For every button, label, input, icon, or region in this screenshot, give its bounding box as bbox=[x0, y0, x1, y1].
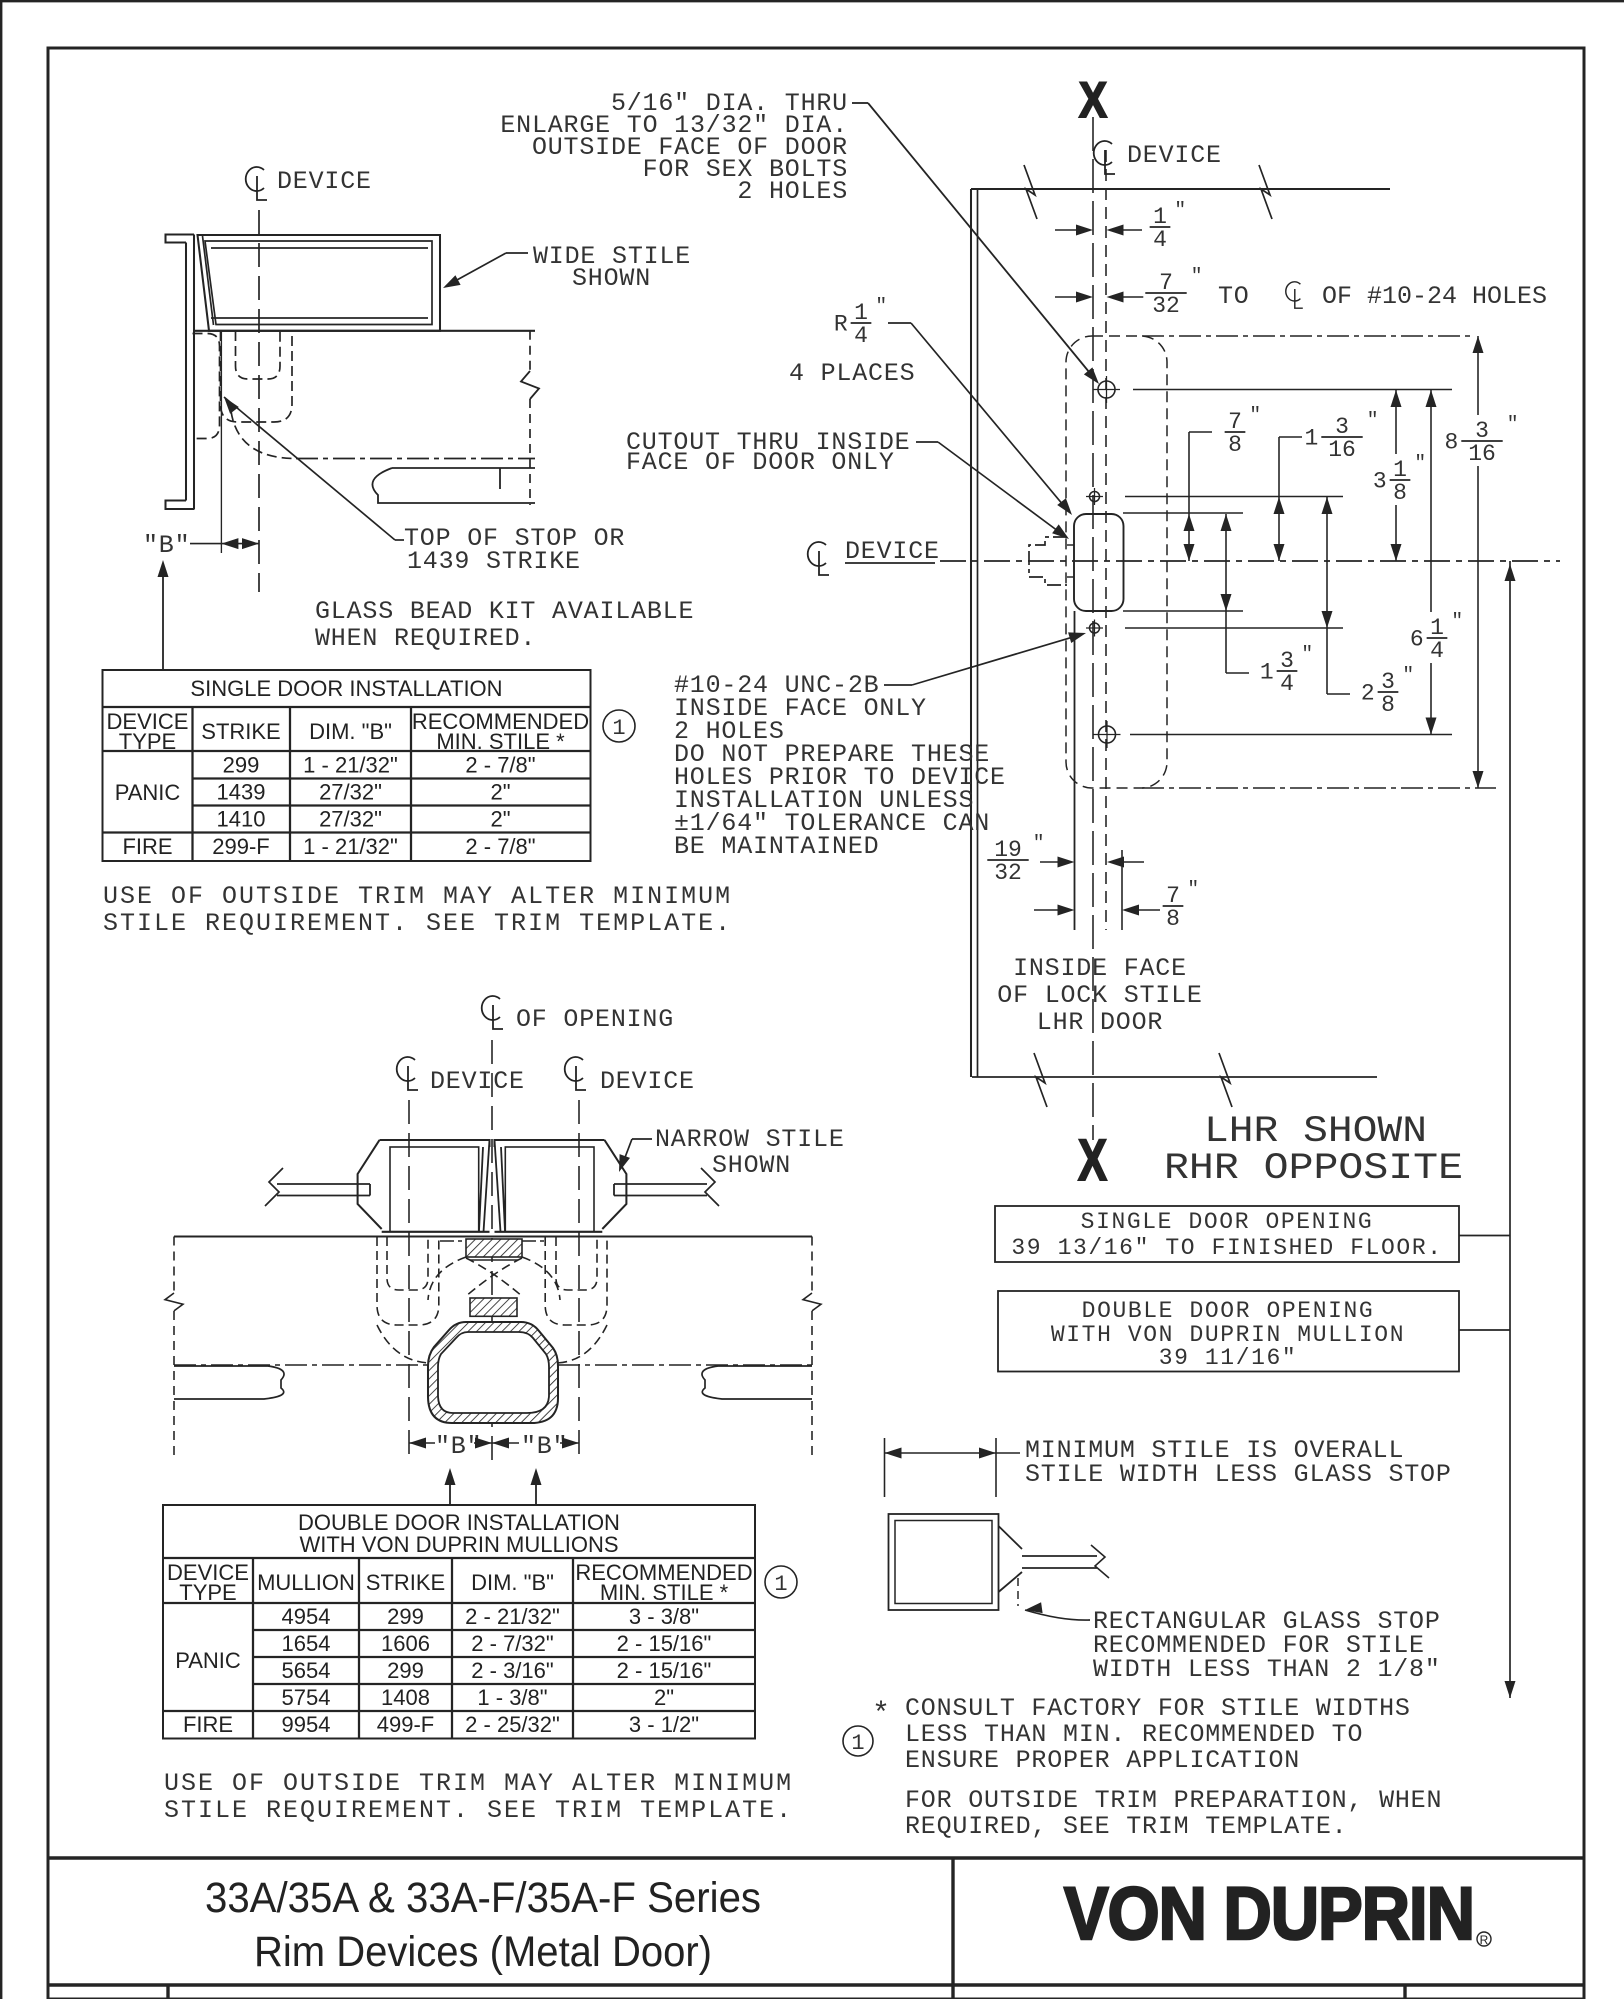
svg-text:8: 8 bbox=[1381, 692, 1395, 718]
svg-text:″: ″ bbox=[1301, 643, 1313, 665]
svg-text:DEVICE: DEVICE bbox=[430, 1067, 525, 1096]
svg-text:R: R bbox=[834, 312, 848, 338]
svg-text:STRIKE: STRIKE bbox=[201, 719, 280, 744]
svg-text:299: 299 bbox=[223, 753, 260, 778]
svg-text:MIN. STILE *: MIN. STILE * bbox=[600, 1580, 729, 1605]
svg-text:4954: 4954 bbox=[282, 1604, 331, 1629]
svg-text:3 - 1/2": 3 - 1/2" bbox=[629, 1712, 699, 1737]
svg-text:8: 8 bbox=[1228, 432, 1242, 458]
svg-text:WITH VON DUPRIN MULLIONS: WITH VON DUPRIN MULLIONS bbox=[299, 1532, 618, 1557]
svg-text:BE MAINTAINED: BE MAINTAINED bbox=[674, 832, 879, 861]
svg-text:TYPE: TYPE bbox=[179, 1580, 236, 1605]
svg-text:1606: 1606 bbox=[381, 1631, 430, 1656]
svg-text:OF LOCK STILE: OF LOCK STILE bbox=[997, 981, 1202, 1010]
svg-text:DIM. "B": DIM. "B" bbox=[471, 1570, 554, 1595]
svg-text:″: ″ bbox=[1191, 265, 1203, 287]
svg-text:"B": "B" bbox=[143, 531, 190, 560]
svg-text:1: 1 bbox=[1304, 426, 1318, 452]
svg-text:2 - 25/32": 2 - 25/32" bbox=[465, 1712, 560, 1737]
svg-text:1: 1 bbox=[851, 1731, 864, 1756]
svg-text:16: 16 bbox=[1468, 441, 1496, 467]
svg-text:2 - 15/16": 2 - 15/16" bbox=[617, 1631, 712, 1656]
svg-text:GLASS BEAD KIT AVAILABLE: GLASS BEAD KIT AVAILABLE bbox=[315, 597, 694, 626]
svg-text:PANIC: PANIC bbox=[115, 780, 181, 805]
svg-text:1 - 3/8": 1 - 3/8" bbox=[477, 1685, 547, 1710]
svg-text:299: 299 bbox=[387, 1658, 424, 1683]
svg-text:SINGLE DOOR OPENING: SINGLE DOOR OPENING bbox=[1081, 1209, 1374, 1235]
svg-text:299: 299 bbox=[387, 1604, 424, 1629]
svg-text:299-F: 299-F bbox=[212, 834, 269, 859]
svg-text:1: 1 bbox=[612, 716, 625, 741]
svg-text:STILE REQUIREMENT. SEE TRIM TE: STILE REQUIREMENT. SEE TRIM TEMPLATE. bbox=[164, 1796, 793, 1825]
svg-text:LESS THAN MIN. RECOMMENDED TO: LESS THAN MIN. RECOMMENDED TO bbox=[905, 1720, 1363, 1749]
svg-text:SHOWN: SHOWN bbox=[572, 264, 651, 293]
svg-text:″: ″ bbox=[1367, 409, 1379, 431]
svg-text:2 HOLES: 2 HOLES bbox=[737, 177, 848, 206]
svg-text:LHR DOOR: LHR DOOR bbox=[1037, 1008, 1163, 1037]
svg-text:FIRE: FIRE bbox=[122, 834, 172, 859]
svg-text:REQUIRED, SEE TRIM TEMPLATE.: REQUIRED, SEE TRIM TEMPLATE. bbox=[905, 1812, 1347, 1841]
svg-text:″: ″ bbox=[1414, 452, 1426, 474]
svg-text:FACE OF DOOR ONLY: FACE OF DOOR ONLY bbox=[626, 448, 895, 477]
svg-text:8: 8 bbox=[1393, 480, 1407, 506]
svg-text:3: 3 bbox=[1373, 469, 1387, 495]
svg-text:32: 32 bbox=[1152, 293, 1180, 319]
svg-text:2 - 7/8": 2 - 7/8" bbox=[465, 753, 535, 778]
svg-text:1439 STRIKE: 1439 STRIKE bbox=[407, 547, 581, 576]
svg-text:SHOWN: SHOWN bbox=[712, 1151, 791, 1180]
svg-text:8: 8 bbox=[1166, 906, 1180, 932]
svg-text:2 - 7/32": 2 - 7/32" bbox=[471, 1631, 553, 1656]
svg-text:5754: 5754 bbox=[282, 1685, 331, 1710]
svg-text:8: 8 bbox=[1444, 430, 1458, 456]
svg-text:″: ″ bbox=[1033, 832, 1045, 854]
svg-text:USE OF OUTSIDE TRIM MAY ALTER: USE OF OUTSIDE TRIM MAY ALTER MINIMUM bbox=[103, 882, 732, 911]
svg-text:Rim Devices (Metal Door): Rim Devices (Metal Door) bbox=[254, 1928, 712, 1976]
svg-text:VON DUPRIN: VON DUPRIN bbox=[1064, 1872, 1474, 1955]
svg-text:USE OF OUTSIDE TRIM MAY ALTER: USE OF OUTSIDE TRIM MAY ALTER MINIMUM bbox=[164, 1769, 793, 1798]
svg-text:1654: 1654 bbox=[282, 1631, 331, 1656]
svg-text:STILE WIDTH LESS GLASS STOP: STILE WIDTH LESS GLASS STOP bbox=[1025, 1460, 1452, 1489]
svg-text:FOR OUTSIDE TRIM PREPARATION,: FOR OUTSIDE TRIM PREPARATION, WHEN bbox=[905, 1786, 1442, 1815]
svg-text:R: R bbox=[1480, 1933, 1489, 1947]
svg-text:DEVICE: DEVICE bbox=[600, 1067, 695, 1096]
svg-text:WHEN REQUIRED.: WHEN REQUIRED. bbox=[315, 624, 536, 653]
svg-text:39 13/16" TO FINISHED FLOOR.: 39 13/16" TO FINISHED FLOOR. bbox=[1011, 1235, 1442, 1261]
svg-text:WIDTH LESS THAN 2 1/8": WIDTH LESS THAN 2 1/8" bbox=[1093, 1655, 1441, 1684]
svg-text:499-F: 499-F bbox=[377, 1712, 434, 1737]
svg-text:ENSURE PROPER APPLICATION: ENSURE PROPER APPLICATION bbox=[905, 1746, 1300, 1775]
svg-text:9954: 9954 bbox=[282, 1712, 331, 1737]
svg-text:NARROW STILE: NARROW STILE bbox=[655, 1125, 845, 1154]
svg-text:3 - 3/8": 3 - 3/8" bbox=[629, 1604, 699, 1629]
svg-text:27/32": 27/32" bbox=[319, 780, 382, 805]
svg-text:27/32": 27/32" bbox=[319, 807, 382, 832]
svg-text:CONSULT FACTORY FOR STILE WIDT: CONSULT FACTORY FOR STILE WIDTHS bbox=[905, 1694, 1411, 1723]
svg-text:1 - 21/32": 1 - 21/32" bbox=[303, 753, 398, 778]
svg-text:TO: TO bbox=[1218, 282, 1250, 311]
svg-text:5654: 5654 bbox=[282, 1658, 331, 1683]
svg-text:DIM. "B": DIM. "B" bbox=[309, 719, 392, 744]
svg-text:1410: 1410 bbox=[217, 807, 266, 832]
svg-text:4: 4 bbox=[1430, 638, 1444, 664]
svg-text:″: ″ bbox=[875, 295, 887, 317]
svg-text:16: 16 bbox=[1328, 437, 1356, 463]
svg-text:2": 2" bbox=[490, 807, 510, 832]
svg-text:MULLION: MULLION bbox=[257, 1570, 355, 1595]
svg-text:DEVICE: DEVICE bbox=[845, 537, 940, 566]
svg-text:2": 2" bbox=[654, 1685, 674, 1710]
svg-text:2 - 15/16": 2 - 15/16" bbox=[617, 1658, 712, 1683]
svg-text:1439: 1439 bbox=[217, 780, 266, 805]
svg-text:″: ″ bbox=[1187, 878, 1199, 900]
svg-text:4: 4 bbox=[1153, 227, 1167, 253]
svg-text:TYPE: TYPE bbox=[119, 729, 176, 754]
svg-text:SINGLE DOOR INSTALLATION: SINGLE DOOR INSTALLATION bbox=[190, 676, 502, 701]
svg-text:1: 1 bbox=[774, 1572, 787, 1597]
svg-text:″: ″ bbox=[1507, 413, 1519, 435]
svg-text:MIN. STILE *: MIN. STILE * bbox=[436, 729, 565, 754]
svg-text:STRIKE: STRIKE bbox=[366, 1570, 445, 1595]
svg-text:FIRE: FIRE bbox=[183, 1712, 233, 1737]
svg-text:32: 32 bbox=[994, 860, 1022, 886]
svg-text:RHR OPPOSITE: RHR OPPOSITE bbox=[1164, 1148, 1463, 1190]
svg-text:4: 4 bbox=[1280, 671, 1294, 697]
svg-text:2": 2" bbox=[490, 780, 510, 805]
svg-text:2: 2 bbox=[1361, 681, 1375, 707]
svg-text:″: ″ bbox=[1174, 199, 1186, 221]
svg-text:STILE REQUIREMENT. SEE TRIM TE: STILE REQUIREMENT. SEE TRIM TEMPLATE. bbox=[103, 909, 732, 938]
svg-text:*: * bbox=[872, 1698, 890, 1732]
svg-text:1 - 21/32": 1 - 21/32" bbox=[303, 834, 398, 859]
svg-text:2 - 7/8": 2 - 7/8" bbox=[465, 834, 535, 859]
svg-text:″: ″ bbox=[1249, 404, 1261, 426]
svg-text:INSIDE FACE: INSIDE FACE bbox=[1013, 954, 1187, 983]
svg-text:″: ″ bbox=[1451, 610, 1463, 632]
svg-text:33A/35A & 33A-F/35A-F Series: 33A/35A & 33A-F/35A-F Series bbox=[205, 1874, 761, 1922]
svg-text:6: 6 bbox=[1410, 627, 1424, 653]
svg-text:2 - 3/16": 2 - 3/16" bbox=[471, 1658, 553, 1683]
svg-text:PANIC: PANIC bbox=[175, 1648, 241, 1673]
svg-text:1408: 1408 bbox=[381, 1685, 430, 1710]
svg-text:"B": "B" bbox=[521, 1432, 568, 1461]
svg-text:39 11/16": 39 11/16" bbox=[1159, 1345, 1298, 1371]
svg-text:DEVICE: DEVICE bbox=[1127, 141, 1222, 170]
svg-text:″: ″ bbox=[1402, 664, 1414, 686]
svg-text:DOUBLE DOOR OPENING: DOUBLE DOOR OPENING bbox=[1082, 1298, 1375, 1324]
svg-text:4 PLACES: 4 PLACES bbox=[789, 359, 915, 388]
svg-text:DEVICE: DEVICE bbox=[277, 167, 372, 196]
svg-text:1: 1 bbox=[1260, 660, 1274, 686]
svg-text:LHR SHOWN: LHR SHOWN bbox=[1204, 1111, 1427, 1153]
svg-text:OF #10-24 HOLES: OF #10-24 HOLES bbox=[1322, 282, 1547, 311]
svg-text:2 - 21/32": 2 - 21/32" bbox=[465, 1604, 560, 1629]
svg-text:4: 4 bbox=[854, 323, 868, 349]
svg-text:OF OPENING: OF OPENING bbox=[516, 1005, 674, 1034]
